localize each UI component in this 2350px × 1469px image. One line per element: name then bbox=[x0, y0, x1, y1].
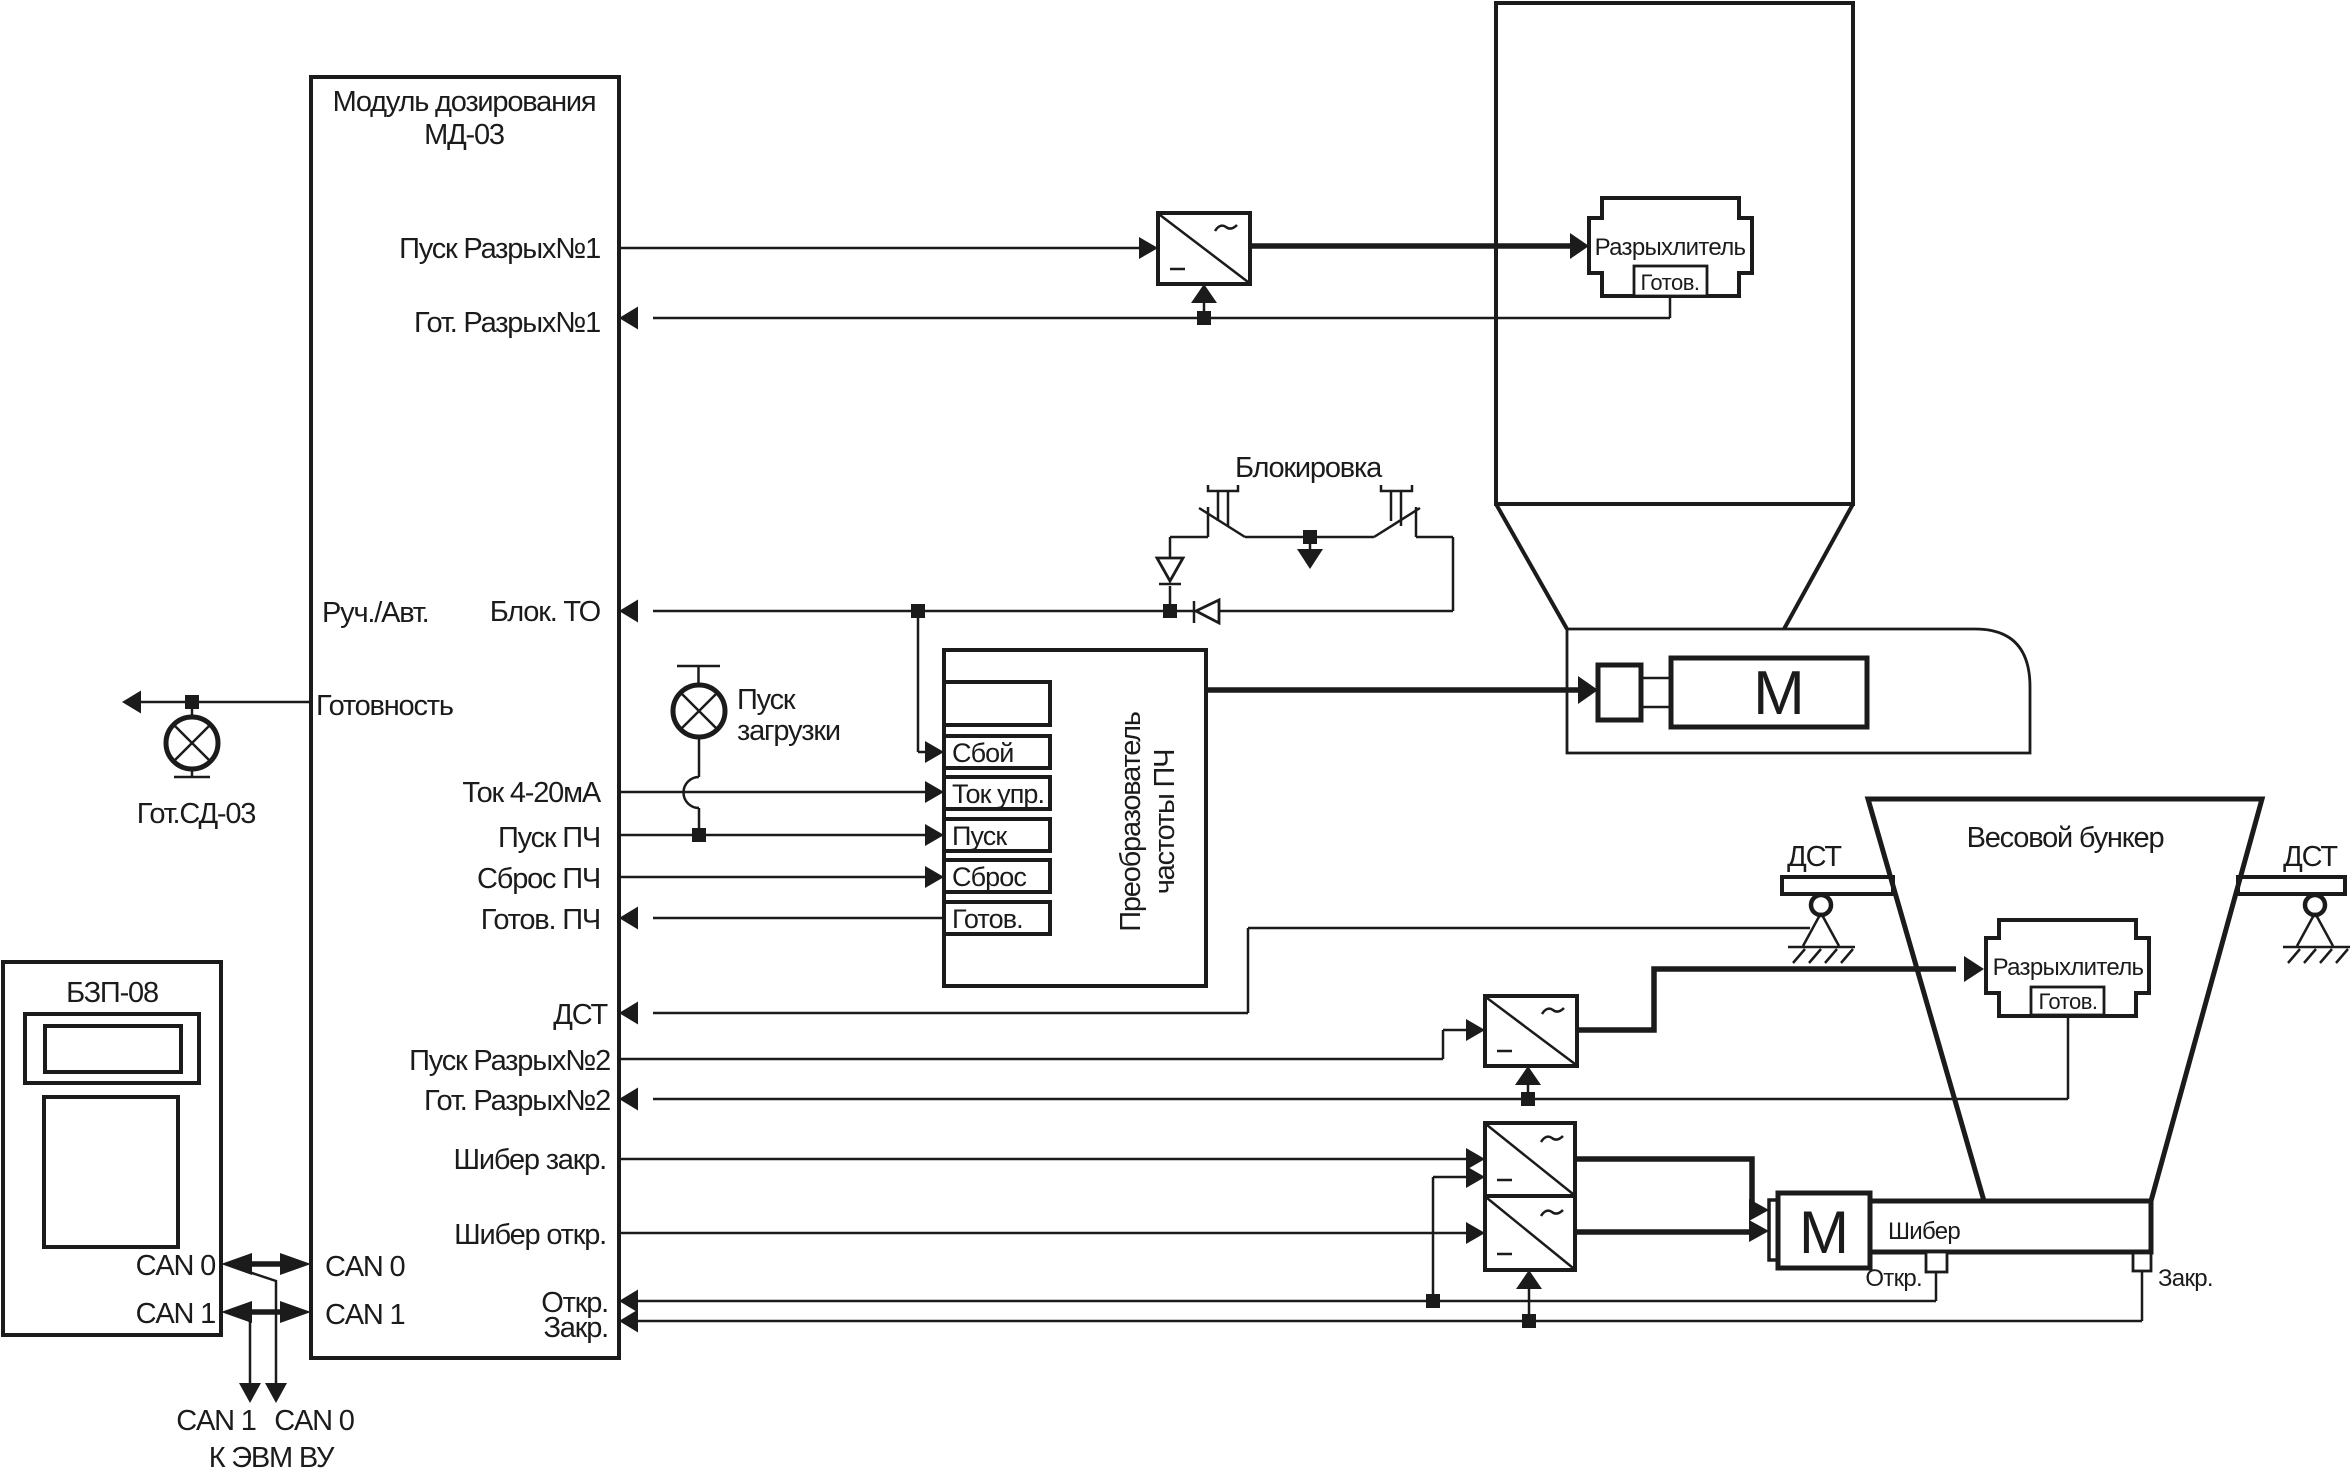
lamp wire with hop over Ток line bbox=[683, 737, 699, 828]
wire Шибер откр. bbox=[619, 1222, 1485, 1244]
frequency converter ПЧ box bbox=[944, 650, 1206, 986]
wire Блок. ТО bbox=[619, 537, 1453, 623]
screw conveyor housing bbox=[1567, 629, 2030, 753]
svg-text:Готов. ПЧ: Готов. ПЧ bbox=[481, 904, 600, 936]
junction lamp to Пуск ПЧ line bbox=[692, 828, 706, 842]
junction diode V1 on Блок.ТО bbox=[1163, 604, 1177, 618]
ДСТ support left beam bbox=[1782, 841, 1893, 894]
svg-text:CAN 0: CAN 0 bbox=[136, 1250, 215, 1282]
svg-text:ДСТ: ДСТ bbox=[553, 999, 608, 1031]
БЗП-08 box bbox=[3, 962, 221, 1335]
wire CAN 1 drop to ЭВМ bbox=[239, 1317, 261, 1403]
svg-text:загрузки: загрузки bbox=[737, 715, 840, 747]
Разрыхлитель №2 bbox=[1986, 920, 2149, 1016]
svg-text:Гот. Разрых№1: Гот. Разрых№1 bbox=[414, 307, 600, 339]
svg-text:К ЭВМ ВУ: К ЭВМ ВУ bbox=[209, 1442, 335, 1469]
svg-text:Шибер откр.: Шибер откр. bbox=[454, 1219, 606, 1251]
svg-text:CAN 1: CAN 1 bbox=[136, 1298, 215, 1330]
diode V2 (on Блок.ТО line) bbox=[1194, 600, 1219, 623]
ДСТ support right beam bbox=[2238, 841, 2345, 894]
frequency converter U2 (Разрых№2 drive) bbox=[1485, 996, 1577, 1066]
ПЧ terminal Готов. bbox=[944, 902, 1050, 934]
svg-text:Готов.: Готов. bbox=[2038, 989, 2097, 1014]
CAN 0 bus link bbox=[221, 1253, 311, 1275]
wire Ток 4-20мА bbox=[619, 781, 944, 803]
svg-text:Готовность: Готовность bbox=[316, 690, 453, 722]
svg-text:Весовой бункер: Весовой бункер bbox=[1967, 822, 2164, 854]
wire Готов. ПЧ bbox=[619, 907, 944, 930]
ПЧ terminal empty bbox=[944, 682, 1050, 725]
limit switch S1 bbox=[1199, 485, 1245, 537]
wire ПЧ output to motor M (power) bbox=[1206, 676, 1598, 704]
wire Откр. to module bbox=[619, 1272, 1936, 1313]
svg-text:Блокировка: Блокировка bbox=[1235, 452, 1383, 484]
wire U3 output to gate motor (power) bbox=[1575, 1159, 1769, 1221]
wire Пуск Разрых№2 bbox=[619, 1019, 1485, 1059]
svg-text:Сброс ПЧ: Сброс ПЧ bbox=[477, 863, 600, 895]
junction Закр tap to U4 bbox=[1516, 1270, 1542, 1328]
ДСТ support right pivot bbox=[2283, 895, 2350, 963]
wire S1 to diode V1 bbox=[1170, 537, 1208, 558]
Шибер (gate) box bbox=[1870, 1201, 2151, 1252]
ПЧ terminal Сброс bbox=[944, 860, 1050, 892]
wire CAN 0 drop to ЭВМ bbox=[240, 1269, 287, 1403]
junction lamp Гот.СД-03 bbox=[185, 695, 199, 709]
Готов. indicator of Разрыхлитель№2 bbox=[2031, 987, 2104, 1015]
svg-text:Шибер закр.: Шибер закр. bbox=[454, 1144, 606, 1176]
limit switch Закр. bbox=[2133, 1253, 2213, 1292]
frequency converter U4 (gate open drive) bbox=[1485, 1196, 1575, 1270]
svg-text:БЗП-08: БЗП-08 bbox=[66, 977, 158, 1009]
wire Шибер закр. bbox=[619, 1148, 1485, 1170]
lamp Пуск загрузки bbox=[673, 666, 840, 747]
БЗП-08 keypad panel bbox=[44, 1097, 178, 1247]
wire Пуск Разрых№1 bbox=[619, 237, 1158, 259]
svg-text:ДСТ: ДСТ bbox=[2283, 841, 2338, 873]
wire Готовность bbox=[122, 691, 311, 714]
svg-text:Пуск Разрых№2: Пуск Разрых№2 bbox=[409, 1045, 610, 1077]
svg-text:Ток 4-20мА: Ток 4-20мА bbox=[462, 777, 602, 809]
svg-text:Пуск: Пуск bbox=[952, 821, 1007, 851]
Готов. indicator of Разрыхлитель№1 bbox=[1634, 266, 1707, 296]
svg-text:М: М bbox=[1753, 659, 1805, 728]
motor M2 (gate drive) bbox=[1778, 1193, 1870, 1268]
wire between switches bbox=[1245, 536, 1374, 539]
svg-text:М: М bbox=[1799, 1199, 1849, 1266]
svg-text:частоты ПЧ: частоты ПЧ bbox=[1149, 750, 1181, 895]
motor M1 coupling bbox=[1598, 665, 1671, 720]
svg-text:Гот. Разрых№2: Гот. Разрых№2 bbox=[424, 1085, 610, 1117]
frequency converter U1 (Разрых№1 drive) bbox=[1158, 213, 1250, 284]
diode V1 (vertical) bbox=[1157, 558, 1183, 604]
motor M1 (screw conveyor) bbox=[1671, 658, 1867, 728]
ПЧ terminal Сбой bbox=[944, 736, 1050, 768]
svg-text:Пуск ПЧ: Пуск ПЧ bbox=[498, 822, 600, 854]
ДСТ support left pivot bbox=[1788, 895, 1855, 963]
svg-text:МД-03: МД-03 bbox=[424, 119, 504, 151]
wire Гот. Разрых№1 bbox=[619, 296, 1670, 330]
bottom CAN labels bbox=[176, 1405, 353, 1469]
svg-text:CAN 1: CAN 1 bbox=[325, 1299, 404, 1331]
svg-text:Откр.: Откр. bbox=[1865, 1265, 1922, 1292]
junction mid switches with down arrow bbox=[1297, 530, 1323, 569]
svg-text:CAN 1: CAN 1 bbox=[176, 1405, 255, 1437]
svg-text:Сброс: Сброс bbox=[952, 862, 1026, 892]
БЗП-08 CAN labels bbox=[136, 1250, 215, 1330]
lamp Гот.СД-03 bbox=[137, 702, 256, 830]
wire U2 to Разрыхлитель№2 (power) bbox=[1577, 956, 1984, 1030]
silo (hopper) body bbox=[1496, 3, 1853, 629]
svg-text:Сбой: Сбой bbox=[952, 738, 1013, 768]
svg-text:ДСТ: ДСТ bbox=[1787, 841, 1842, 873]
svg-text:Закр.: Закр. bbox=[543, 1312, 608, 1344]
svg-text:Закр.: Закр. bbox=[2158, 1265, 2213, 1292]
wire S2 to Блок.ТО corner bbox=[1416, 536, 1453, 539]
wire Закр. to module bbox=[619, 1271, 2142, 1333]
junction on Гот.Разрых№1 under U1 bbox=[1191, 284, 1217, 325]
frequency converter U3 (gate close drive) bbox=[1485, 1123, 1575, 1196]
wire U1 to Разрыхлитель№1 (power) bbox=[1250, 233, 1589, 259]
weighing hopper (Весовой бункер) bbox=[1868, 799, 2262, 1201]
module МД-03 box bbox=[311, 77, 619, 1358]
svg-text:Готов.: Готов. bbox=[1640, 270, 1699, 295]
ПЧ rotated title bbox=[1115, 712, 1181, 932]
svg-text:Пуск: Пуск bbox=[737, 684, 796, 716]
svg-text:Готов.: Готов. bbox=[952, 904, 1023, 934]
limit switch Откр. bbox=[1865, 1252, 1947, 1292]
svg-text:CAN 0: CAN 0 bbox=[325, 1251, 404, 1283]
wire Сброс ПЧ bbox=[619, 866, 944, 888]
wire ДСТ sensor to module bbox=[619, 928, 1810, 1025]
Разрыхлитель №1 bbox=[1589, 198, 1752, 296]
svg-text:Шибер: Шибер bbox=[1888, 1218, 1960, 1245]
БЗП-08 display window bbox=[25, 1014, 199, 1083]
wire U4 output to gate motor (power) bbox=[1575, 1220, 1769, 1242]
svg-text:Гот.СД-03: Гот.СД-03 bbox=[137, 798, 256, 830]
CAN 1 bus link bbox=[221, 1301, 311, 1323]
svg-text:Руч./Авт.: Руч./Авт. bbox=[322, 597, 429, 629]
svg-text:Ток упр.: Ток упр. bbox=[952, 779, 1044, 809]
svg-text:Разрыхлитель: Разрыхлитель bbox=[1595, 234, 1746, 261]
motor M2 coupling bbox=[1769, 1200, 1778, 1260]
svg-text:Преобразователь: Преобразователь bbox=[1115, 712, 1147, 932]
svg-text:Разрыхлитель: Разрыхлитель bbox=[1993, 954, 2144, 981]
wire Пуск ПЧ bbox=[619, 824, 944, 846]
junction Блок.ТО to Сбой bbox=[911, 604, 944, 763]
limit switch S2 bbox=[1374, 485, 1420, 537]
svg-text:Пуск Разрых№1: Пуск Разрых№1 bbox=[399, 233, 600, 265]
ПЧ terminal Пуск bbox=[944, 819, 1050, 851]
ПЧ terminal Ток упр. bbox=[944, 777, 1050, 809]
junction on Гот.Разрых№2 under U2 bbox=[1515, 1066, 1541, 1106]
svg-text:CAN 0: CAN 0 bbox=[274, 1405, 353, 1437]
svg-text:Модуль дозирования: Модуль дозирования bbox=[333, 86, 596, 118]
wire Гот. Разрых№2 bbox=[619, 1016, 2068, 1111]
module pin labels bbox=[316, 233, 610, 1344]
junction Откр tap bbox=[1426, 1294, 1440, 1308]
svg-text:Блок. ТО: Блок. ТО bbox=[490, 596, 601, 628]
wire tap Откр to U3 second input bbox=[1433, 1166, 1485, 1301]
